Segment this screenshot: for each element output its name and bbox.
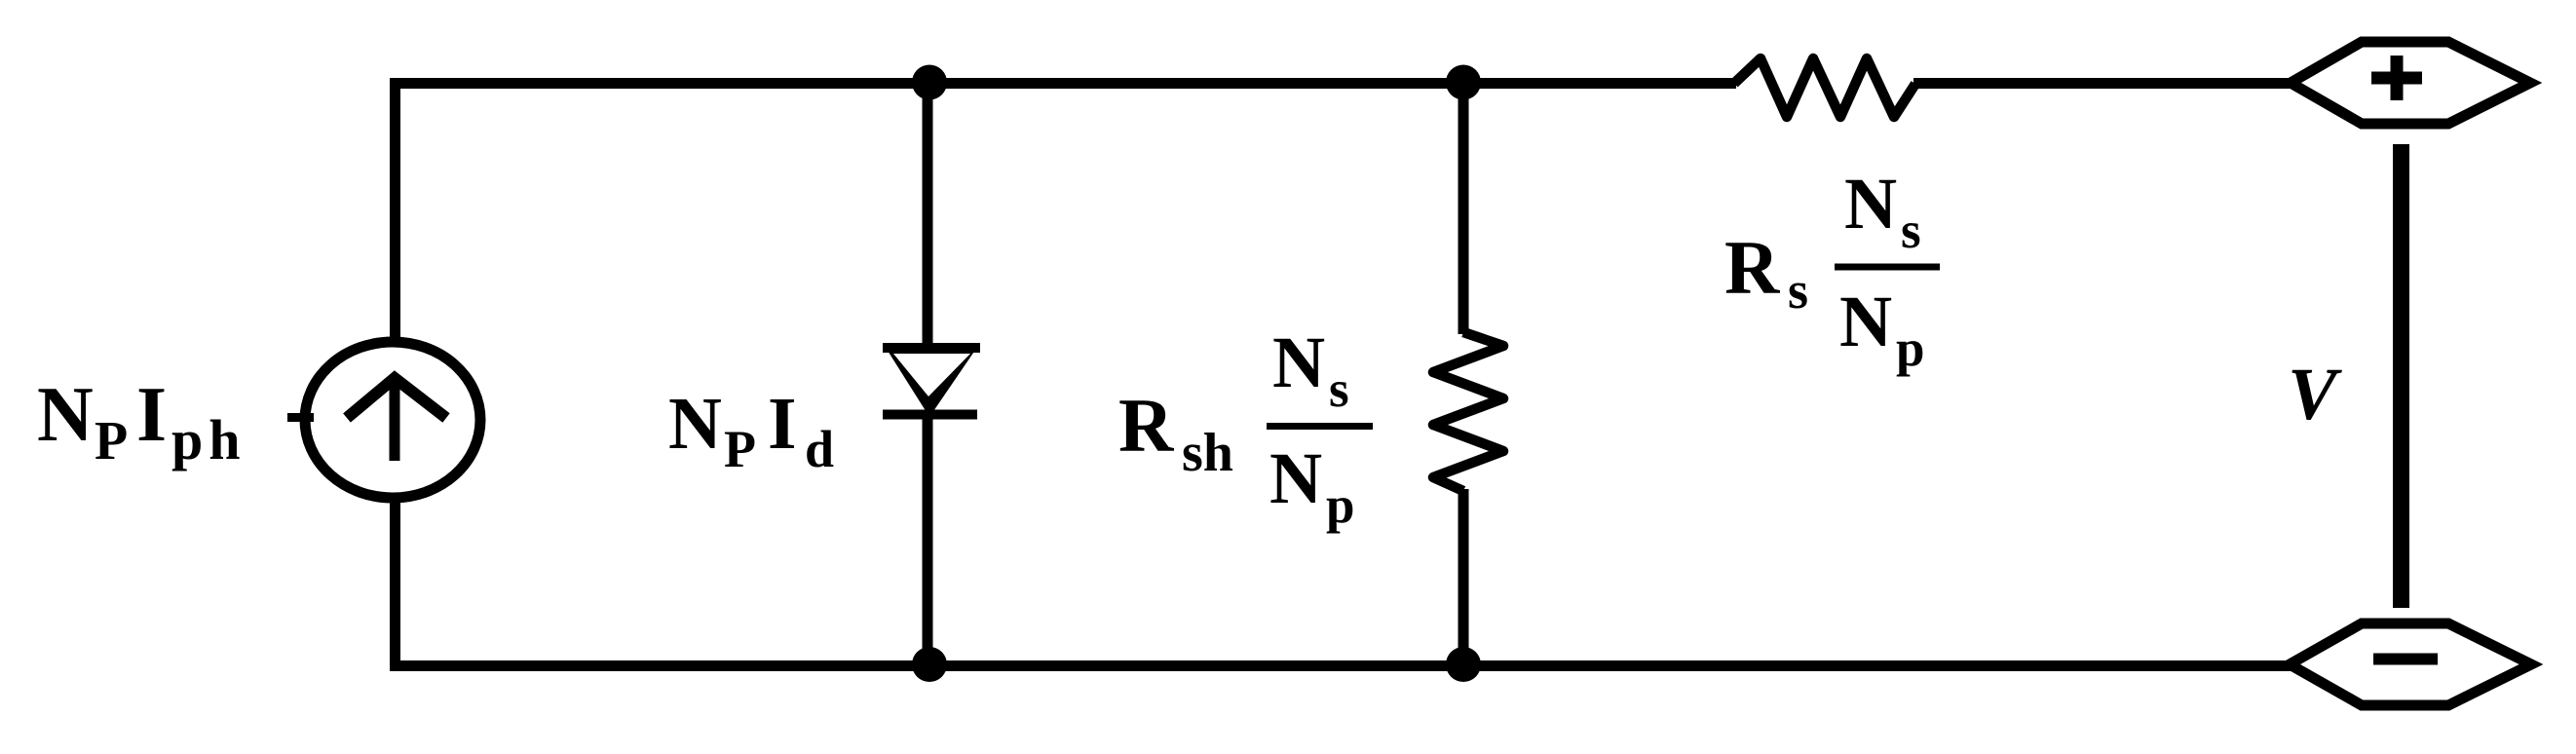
svg-text:N: N bbox=[1269, 438, 1322, 519]
label NP Id bbox=[668, 383, 834, 478]
label Ns/Np fraction (series) bbox=[1835, 164, 1940, 377]
wire diode branch lower bbox=[923, 417, 933, 665]
diode D1 cathode bar bbox=[883, 410, 977, 420]
junction dot shunt top bbox=[1446, 65, 1481, 100]
svg-text:N: N bbox=[668, 383, 722, 465]
wire left vertical (top) bbox=[390, 78, 400, 344]
wire shunt branch lower bbox=[1458, 489, 1469, 665]
label Ns/Np fraction (shunt) bbox=[1267, 322, 1373, 534]
diode D1 triangle bbox=[883, 343, 980, 417]
svg-text:P: P bbox=[95, 411, 128, 471]
label Rsh bbox=[1118, 383, 1233, 483]
wire top bus (left of Rs) bbox=[390, 78, 1736, 89]
resistor Rsh zigzag bbox=[1433, 332, 1503, 491]
minus sign bbox=[2373, 654, 2438, 665]
svg-text:s: s bbox=[1788, 261, 1808, 320]
current source U1 circle bbox=[305, 342, 480, 498]
resistor Rs zigzag bbox=[1734, 58, 1915, 117]
wire shunt branch upper bbox=[1458, 82, 1469, 334]
svg-text:I: I bbox=[136, 372, 167, 458]
junction dot diode top bbox=[912, 65, 947, 100]
svg-text:s: s bbox=[1901, 203, 1921, 259]
svg-text:I: I bbox=[768, 383, 797, 465]
current source arrow shaft bbox=[390, 380, 400, 461]
wire diode branch upper bbox=[923, 83, 933, 351]
label NP Iph bbox=[37, 372, 246, 471]
svg-text:p: p bbox=[1326, 477, 1354, 534]
svg-text:d: d bbox=[805, 420, 834, 478]
svg-text:s: s bbox=[1329, 361, 1349, 418]
svg-text:R: R bbox=[1724, 225, 1781, 310]
terminal + hexagon bbox=[2291, 42, 2530, 124]
svg-text:R: R bbox=[1118, 383, 1175, 468]
svg-text:N: N bbox=[1844, 164, 1897, 245]
label Rs bbox=[1724, 225, 1808, 320]
svg-text:N: N bbox=[1839, 282, 1892, 362]
terminal - hexagon bbox=[2290, 623, 2531, 705]
junction dot shunt bottom bbox=[1446, 647, 1481, 682]
svg-text:p: p bbox=[1896, 320, 1924, 377]
diode D1 anode bar bbox=[883, 343, 980, 353]
svg-text:ph: ph bbox=[171, 408, 246, 471]
tick on circle left bbox=[287, 413, 314, 422]
wire V vertical bar bbox=[2393, 144, 2409, 608]
svg-text:P: P bbox=[724, 420, 756, 478]
plus sign bbox=[2371, 56, 2422, 100]
svg-text:V: V bbox=[2288, 354, 2342, 435]
wire bottom bus bbox=[390, 660, 2293, 671]
junction dot diode bottom bbox=[912, 647, 947, 682]
wire left vertical (bottom) bbox=[390, 496, 400, 671]
current source arrow head bbox=[347, 378, 446, 418]
svg-text:N: N bbox=[37, 372, 94, 458]
svg-text:sh: sh bbox=[1182, 423, 1233, 483]
svg-text:N: N bbox=[1272, 322, 1325, 403]
wire top bus (right of Rs) bbox=[1913, 78, 2294, 89]
